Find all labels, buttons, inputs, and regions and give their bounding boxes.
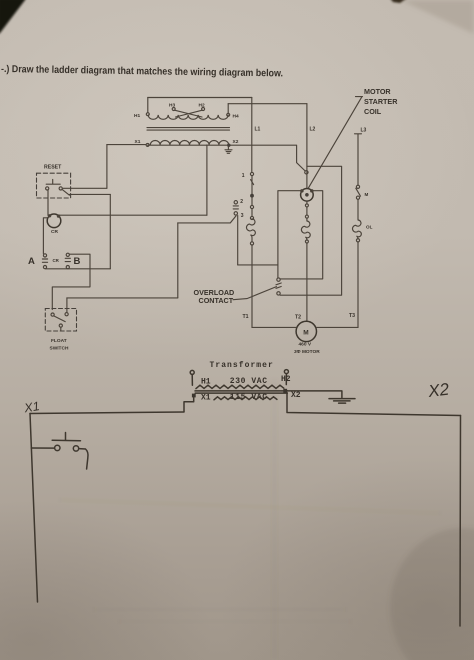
transformer T1 terminal H3 bbox=[169, 103, 175, 111]
wire L2 coil bottom to T2 bbox=[306, 201, 308, 321]
svg-text:M: M bbox=[303, 329, 308, 336]
relay coil CR bbox=[47, 214, 61, 235]
wire riser x178 up bbox=[177, 223, 179, 298]
wire X1 down to left rail bbox=[184, 397, 194, 411]
wire X1 feed down to reset bbox=[106, 145, 108, 189]
svg-text:460 V: 460 V bbox=[299, 342, 312, 348]
terminals on L1 bbox=[250, 205, 253, 219]
wire L2 bypass branch bbox=[280, 166, 341, 295]
wire terminal 3 down bbox=[237, 216, 239, 265]
terminal B bbox=[65, 253, 80, 269]
svg-text:115 VAC: 115 VAC bbox=[230, 393, 268, 402]
wire X2 to ground bbox=[287, 391, 342, 398]
wire float switch to line 3 riser bbox=[67, 297, 178, 299]
wire CR coil right to transformer tap bbox=[59, 214, 207, 216]
svg-text:COIL: COIL bbox=[364, 107, 382, 116]
transformer T1 terminal H2 bbox=[199, 103, 205, 111]
svg-text:1: 1 bbox=[242, 173, 245, 179]
wire terminal B top to float switch loop bbox=[52, 254, 90, 309]
line L1 vertical bbox=[251, 98, 253, 173]
svg-text:T2: T2 bbox=[295, 314, 301, 320]
overload contact bbox=[276, 278, 281, 295]
svg-text:L1: L1 bbox=[255, 127, 261, 133]
ladder left rail top wire bbox=[30, 412, 184, 414]
transformer T1 primary winding bbox=[148, 115, 228, 119]
wire X1 to left bbox=[107, 144, 146, 146]
terminal on L3 bbox=[356, 239, 359, 242]
wire CR coil left side down to terminal A bbox=[43, 218, 47, 254]
transformer T1 terminal X2 bbox=[227, 139, 239, 147]
svg-text:M: M bbox=[365, 192, 369, 197]
line L3 vertical bbox=[355, 128, 367, 186]
float switch contacts bbox=[51, 313, 68, 331]
motor starter coil M bbox=[301, 189, 314, 202]
hand-drawn pushbutton wire right with pencil hook bbox=[79, 449, 88, 469]
svg-text:FLOAT: FLOAT bbox=[51, 338, 67, 344]
label OVERLOAD CONTACT with leader bbox=[194, 287, 277, 306]
svg-text:Transformer: Transformer bbox=[210, 361, 274, 370]
ground at X2 bbox=[225, 147, 232, 154]
svg-text:230 VAC: 230 VAC bbox=[230, 377, 268, 386]
junction terminal on L2 bbox=[305, 171, 308, 174]
wire reset output bbox=[70, 193, 111, 195]
transformer T2 terminal H1 top bbox=[190, 370, 194, 385]
svg-text:3Φ MOTOR: 3Φ MOTOR bbox=[294, 349, 320, 355]
svg-text:X1: X1 bbox=[22, 399, 40, 415]
wire terminal row A-B horizontal bbox=[45, 268, 110, 270]
wire float switch right terminal up bbox=[66, 298, 68, 313]
svg-text:L3: L3 bbox=[361, 128, 367, 134]
svg-text:B: B bbox=[74, 256, 81, 267]
line L2 vertical bbox=[306, 104, 308, 189]
ground symbol bbox=[329, 399, 355, 404]
svg-text:MOTOR: MOTOR bbox=[364, 87, 391, 96]
svg-text:H2: H2 bbox=[281, 375, 291, 384]
svg-text:X2: X2 bbox=[291, 391, 301, 400]
label MOTOR STARTER COIL with leader bbox=[309, 87, 399, 188]
svg-text:X1: X1 bbox=[201, 394, 211, 403]
transformer T2 secondary winding bbox=[214, 397, 277, 400]
svg-text:L2: L2 bbox=[310, 127, 316, 133]
wire L3 down to T3 bbox=[317, 242, 358, 328]
overload heater OL in L3 bbox=[353, 220, 373, 240]
transformer T1 core separator lines bbox=[147, 128, 230, 131]
ladder right rail bbox=[459, 416, 462, 627]
svg-text:-.) Draw the ladder diagram th: -.) Draw the ladder diagram that matches… bbox=[1, 64, 283, 79]
wire L3 between bbox=[357, 199, 359, 219]
svg-text:X2: X2 bbox=[426, 380, 450, 402]
float switch enclosure bbox=[45, 309, 76, 352]
transformer T1 secondary winding bbox=[150, 140, 228, 144]
wire X2 down to right rail bbox=[287, 393, 461, 416]
wire L1 down to T1 bbox=[252, 245, 296, 327]
wire coil left side down to overload contact bbox=[278, 191, 301, 278]
contact M in L1 bbox=[251, 176, 254, 194]
wire reset output down to terminal row bbox=[109, 194, 111, 268]
wire L1 between contacts bbox=[251, 198, 253, 217]
terminals on L2 lower bbox=[305, 204, 308, 243]
transformer T2 terminal H2 top bbox=[284, 370, 288, 385]
wire reset to CR coil bbox=[47, 190, 49, 215]
hand-drawn pushbutton actuator bbox=[52, 433, 80, 441]
dark notch top-right bbox=[390, 0, 407, 3]
wire to reset NC terminal bbox=[63, 187, 107, 189]
svg-text:STARTER: STARTER bbox=[364, 97, 398, 106]
motor M 460V three phase bbox=[294, 321, 320, 355]
terminal A bbox=[28, 254, 48, 269]
svg-text:OL: OL bbox=[366, 224, 373, 229]
dark table corner top-left bbox=[0, 0, 26, 34]
hand-drawn pushbutton wire left bbox=[31, 447, 54, 449]
transformer T1 terminal H1 bbox=[134, 113, 149, 119]
svg-text:2: 2 bbox=[240, 199, 243, 205]
svg-text:H1: H1 bbox=[201, 378, 211, 387]
svg-text:SWITCH: SWITCH bbox=[50, 346, 69, 352]
paper creases bbox=[272, 380, 277, 660]
transformer T1 terminal X1 bbox=[135, 139, 150, 146]
pushbutton RESET contacts bbox=[46, 187, 70, 195]
hand-drawn pushbutton contacts bbox=[55, 445, 79, 451]
svg-text:H1: H1 bbox=[134, 113, 140, 119]
transformer T1 primary H1 riser wire bbox=[147, 98, 149, 113]
wire transformer tap down bbox=[206, 145, 208, 215]
terminal on L1 below OL bbox=[250, 242, 253, 245]
svg-text:CONTACT: CONTACT bbox=[199, 296, 234, 305]
pushbutton RESET enclosure bbox=[37, 165, 71, 199]
overload heater OL in L2 bbox=[301, 221, 310, 241]
transformer T2 core lines bbox=[195, 391, 288, 393]
svg-text:CR: CR bbox=[51, 229, 58, 235]
svg-text:T3: T3 bbox=[349, 313, 355, 319]
transformer T1 primary cross wire H3-H2 bbox=[175, 110, 203, 117]
svg-text:3: 3 bbox=[241, 213, 244, 219]
wire to overload branch corner bbox=[238, 264, 278, 266]
overload heater OL in L1 bbox=[247, 219, 256, 242]
transformer T1 primary H4 riser wire bbox=[227, 104, 229, 114]
junction dot L1 bbox=[250, 194, 254, 198]
wire riser top to contact 3 bbox=[178, 216, 236, 223]
terminal 2 and 3 bbox=[233, 199, 244, 219]
svg-text:T1: T1 bbox=[243, 314, 249, 320]
svg-text:A: A bbox=[28, 256, 35, 267]
wire L1 top bus bbox=[148, 97, 252, 99]
terminal 1 on L1 bbox=[242, 127, 261, 180]
transformer T1 terminal H4 bbox=[227, 113, 239, 119]
wire coil right side down bbox=[280, 191, 323, 279]
wire secondary baseline bbox=[148, 144, 231, 146]
transformer T2 terminal X2 bbox=[283, 389, 287, 393]
transformer T2 terminal X1 bbox=[192, 394, 196, 398]
svg-text:RESET: RESET bbox=[44, 165, 62, 171]
svg-text:H4: H4 bbox=[233, 114, 239, 120]
svg-text:X2: X2 bbox=[233, 139, 239, 145]
wire L2 top bus bbox=[228, 103, 307, 105]
pushbutton RESET actuator bbox=[46, 180, 60, 185]
transformer T2 primary winding bbox=[196, 385, 284, 388]
svg-text:H3: H3 bbox=[169, 103, 175, 109]
svg-text:CR: CR bbox=[53, 258, 60, 263]
shaded paper edge top-right bbox=[400, 0, 474, 34]
ladder left rail bbox=[30, 414, 38, 603]
wire X2 control feed bbox=[231, 145, 306, 171]
svg-text:H2: H2 bbox=[199, 103, 205, 109]
contact M in L3 bbox=[356, 185, 369, 199]
